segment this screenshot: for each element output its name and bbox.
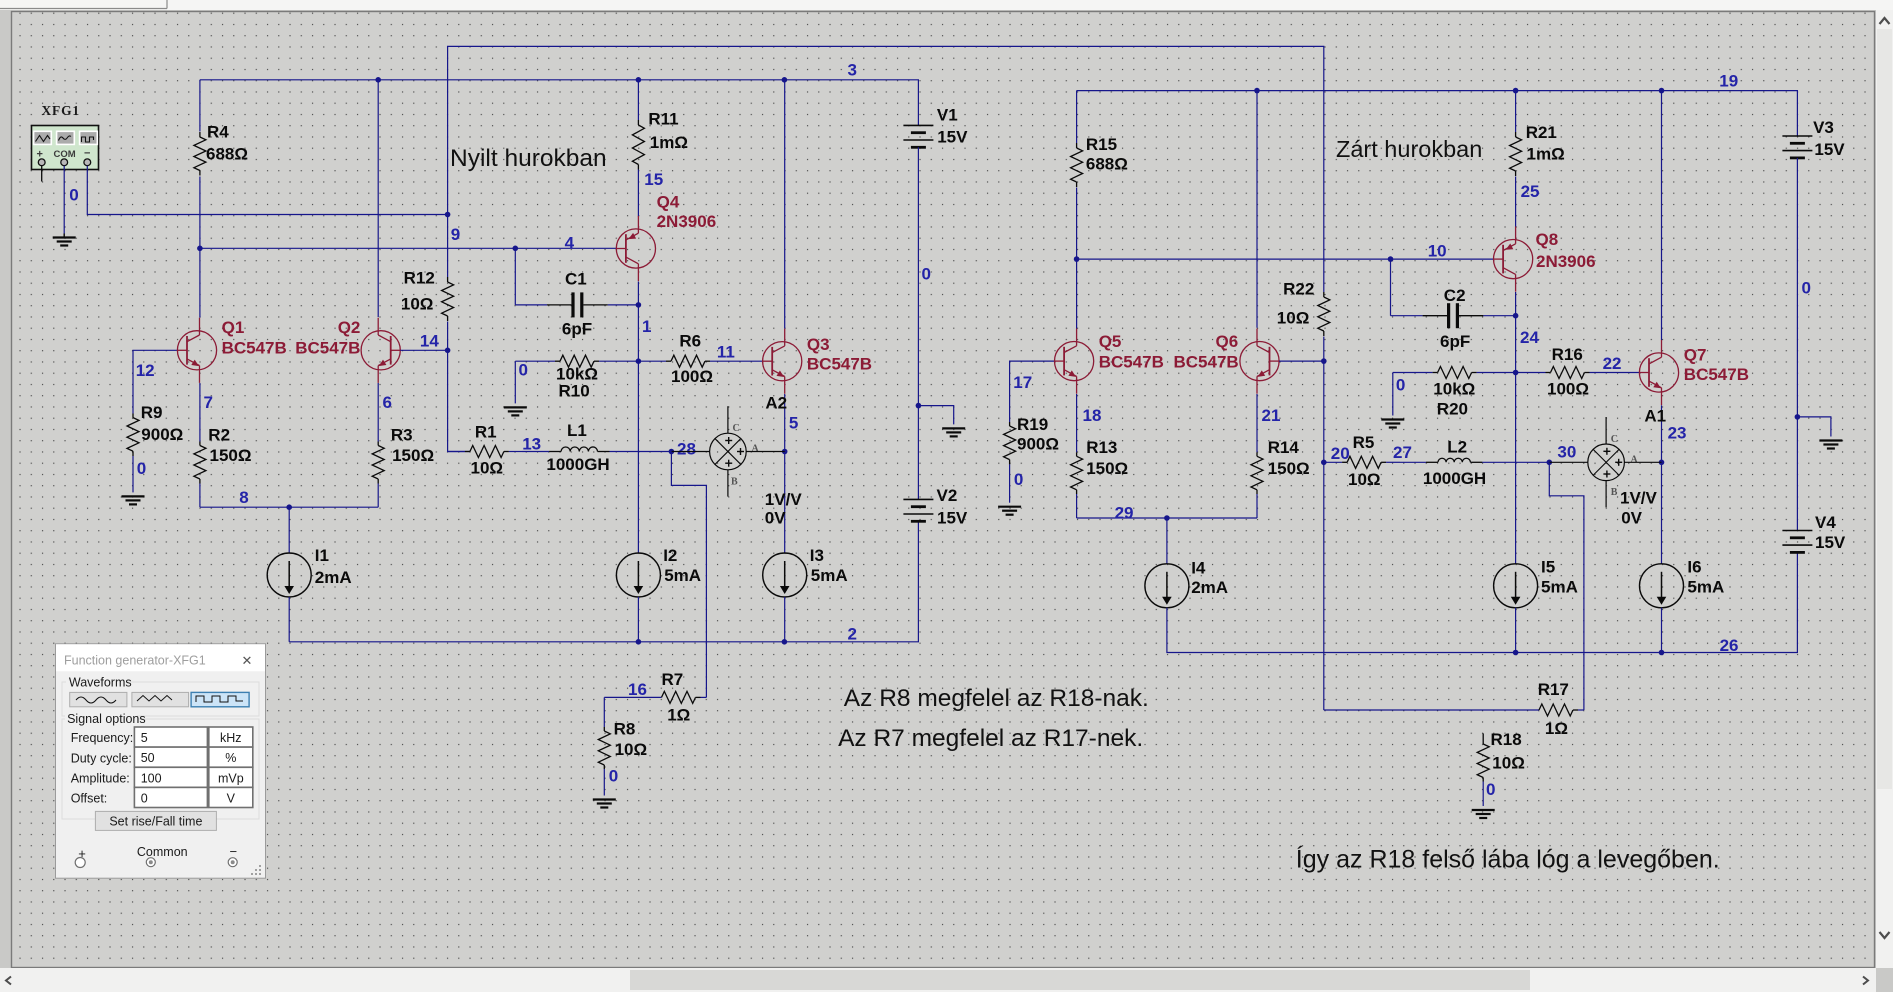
svg-text:0: 0 <box>1486 780 1495 799</box>
junction net 29 - I4 <box>1164 515 1170 521</box>
svg-text:2: 2 <box>848 625 857 644</box>
svg-text:0: 0 <box>1014 470 1023 489</box>
junction C2-Q8 <box>1513 313 1519 319</box>
wire junction to V2 <box>917 406 919 500</box>
wire net 10 row (to Q8 base) <box>1077 258 1494 260</box>
junction C1 riser <box>513 246 519 252</box>
svg-text:2N3906: 2N3906 <box>1536 252 1596 271</box>
resistor R2 <box>194 426 252 484</box>
svg-text:C: C <box>733 423 740 434</box>
svg-text:R8: R8 <box>614 720 636 739</box>
node 0 label at R18 <box>1486 780 1495 799</box>
svg-text:I3: I3 <box>810 546 824 565</box>
svg-text:10Ω: 10Ω <box>471 458 504 477</box>
svg-text:R6: R6 <box>679 332 701 351</box>
svg-text:A2: A2 <box>765 394 787 413</box>
junction R15-Q5-net10 <box>1074 256 1080 262</box>
resistor R20 <box>1393 367 1516 419</box>
junction net1-R6-R10 <box>636 358 642 364</box>
svg-text:900Ω: 900Ω <box>141 425 183 444</box>
svg-text:23: 23 <box>1668 424 1687 443</box>
function generator dialog window <box>56 644 266 878</box>
wire R20 left to ground <box>1392 373 1394 416</box>
wire A1 output to Q7 emitter <box>1624 461 1661 463</box>
dependent source A2 (1V/V) <box>710 394 803 528</box>
node 11 label <box>717 343 735 362</box>
node 29 label <box>1115 504 1134 523</box>
svg-text:B: B <box>731 476 738 487</box>
wire R2 to net 8 <box>199 484 201 508</box>
svg-text:13: 13 <box>522 434 541 453</box>
svg-text:14: 14 <box>420 331 439 350</box>
svg-text:A1: A1 <box>1644 406 1666 425</box>
svg-text:I5: I5 <box>1541 557 1555 576</box>
node 23 label <box>1668 424 1687 443</box>
node 0 label at R19 <box>1014 470 1023 489</box>
svg-text:15: 15 <box>644 170 663 189</box>
svg-text:11: 11 <box>717 343 735 362</box>
transistor Q2 (BC547B NPN, mirrored) <box>295 318 400 383</box>
resistor R12 <box>401 215 454 322</box>
svg-text:100Ω: 100Ω <box>671 367 713 386</box>
voltage source V4 15V <box>1782 513 1846 552</box>
wire net30 lead to A1 <box>1549 461 1588 463</box>
junction V3-V4-ground <box>1795 414 1801 420</box>
wire junction to Q1 collector <box>199 248 201 317</box>
resistor R4 <box>194 80 248 176</box>
svg-text:Így az R18 felső lába lóg a le: Így az R18 felső lába lóg a levegőben. <box>1296 845 1720 874</box>
svg-text:28: 28 <box>677 439 696 458</box>
svg-text:21: 21 <box>1262 406 1281 425</box>
svg-text:R3: R3 <box>391 426 413 445</box>
svg-text:R15: R15 <box>1086 135 1117 154</box>
svg-text:2mA: 2mA <box>1191 578 1228 597</box>
svg-text:4: 4 <box>565 234 575 253</box>
svg-text:Q7: Q7 <box>1684 346 1707 365</box>
svg-text:Zárt hurokban: Zárt hurokban <box>1336 136 1482 162</box>
wire XFG1 plus stub <box>41 166 43 182</box>
svg-text:V3: V3 <box>1813 118 1834 137</box>
wire feedback loop top (net 9 to R22) <box>448 46 1324 290</box>
wire junction to Q5 collector <box>1076 259 1078 328</box>
svg-text:R4: R4 <box>207 123 229 142</box>
svg-text:Q3: Q3 <box>807 335 830 354</box>
current source I1 2mA <box>267 546 351 597</box>
wire R19 to ground <box>1009 464 1011 502</box>
node 27 label <box>1393 443 1412 462</box>
node 21 label <box>1262 406 1281 425</box>
svg-text:Q8: Q8 <box>1536 230 1559 249</box>
wire I5 to net 26 <box>1515 608 1517 653</box>
voltage source V1 15V <box>903 106 968 148</box>
wire net8 to I1 <box>288 507 290 553</box>
transistor Q3 (BC547B NPN) <box>763 329 873 394</box>
wire C2 riser <box>1390 259 1392 316</box>
transistor Q4 (2N3906 PNP) <box>616 192 716 281</box>
wire junction to V4 <box>1796 417 1798 531</box>
transistor Q1 (BC547B NPN) <box>177 318 286 383</box>
title Nyilt hurokban <box>450 145 607 172</box>
node 5 label <box>789 414 798 433</box>
svg-text:BC547B: BC547B <box>1099 352 1164 371</box>
node 14 label <box>420 331 439 350</box>
svg-text:10: 10 <box>1428 242 1447 261</box>
transistor Q5 (BC547B NPN) <box>1055 329 1164 394</box>
svg-text:Az R7 megfelel az R17-nek.: Az R7 megfelel az R17-nek. <box>838 725 1143 752</box>
svg-text:R16: R16 <box>1552 345 1583 364</box>
svg-text:1mΩ: 1mΩ <box>650 133 688 152</box>
node 22 label <box>1603 354 1622 373</box>
wire I3 to net 2 <box>784 597 786 642</box>
resistor R6 <box>638 332 762 387</box>
node 0 label at R9 <box>137 459 146 478</box>
svg-text:10Ω: 10Ω <box>401 295 434 314</box>
inductor L2 1000GH <box>1400 438 1549 488</box>
svg-text:29: 29 <box>1115 504 1134 523</box>
wire R11 to Q4 collector <box>637 171 639 217</box>
wire C1 riser <box>514 248 516 305</box>
svg-text:BC547B: BC547B <box>222 339 287 358</box>
svg-text:Set rise/Fall time: Set rise/Fall time <box>109 814 202 828</box>
node 17 label <box>1013 373 1032 392</box>
svg-text:0: 0 <box>609 766 618 785</box>
wire Q5 emitter to R13 <box>1076 394 1078 452</box>
svg-text:B: B <box>1611 487 1618 498</box>
voltage source V3 15V <box>1782 118 1845 159</box>
node 10 label <box>1428 242 1447 261</box>
voltage source V2 15V <box>903 486 968 528</box>
svg-text:C2: C2 <box>1444 286 1466 305</box>
svg-text:Function generator-XFG1: Function generator-XFG1 <box>64 654 206 668</box>
wire R22 to R17 (loop right side) <box>1323 337 1325 711</box>
svg-text:1Ω: 1Ω <box>1545 719 1568 738</box>
node 0 label at XFG1 ground <box>69 186 78 205</box>
svg-text:R9: R9 <box>141 403 163 422</box>
junction rail19-Q7 <box>1659 88 1665 94</box>
node 26 label <box>1720 636 1739 655</box>
ground R19 <box>998 507 1021 515</box>
svg-text:Waveforms: Waveforms <box>69 676 132 690</box>
svg-text:25: 25 <box>1521 182 1540 201</box>
junction net23-A1 <box>1659 460 1665 466</box>
svg-text:5mA: 5mA <box>1541 577 1578 596</box>
svg-text:0: 0 <box>141 791 148 805</box>
wire Q7 emitter to net 23 <box>1661 405 1663 462</box>
resistor R18 (top leg floating) <box>1477 730 1525 782</box>
node 16 label <box>628 680 647 699</box>
inductor L1 1000GH <box>522 421 671 474</box>
node 28 label <box>677 439 696 458</box>
svg-text:Frequency:: Frequency: <box>71 731 134 745</box>
ground R18 <box>1472 810 1495 818</box>
svg-text:1V/V: 1V/V <box>765 490 803 509</box>
svg-text:R18: R18 <box>1491 730 1522 749</box>
junction V1-V2-ground <box>916 403 922 409</box>
svg-text:150Ω: 150Ω <box>392 446 434 465</box>
svg-text:R7: R7 <box>662 670 684 689</box>
junction rail19-R21 <box>1513 88 1519 94</box>
wire R18 to ground <box>1482 782 1484 807</box>
wire Q5 base net 17 <box>1010 361 1055 422</box>
wire R15 to node 10 junction <box>1076 188 1078 260</box>
node 24 label <box>1520 328 1539 347</box>
wire Q1 emitter to R2 <box>199 383 201 442</box>
svg-text:BC547B: BC547B <box>1174 352 1239 371</box>
svg-text:18: 18 <box>1083 406 1102 425</box>
svg-text:R14: R14 <box>1268 438 1300 457</box>
svg-text:5mA: 5mA <box>664 566 701 585</box>
svg-text:27: 27 <box>1393 443 1412 462</box>
svg-text:150Ω: 150Ω <box>1268 459 1310 478</box>
node 2 label <box>848 625 857 644</box>
ground R20 <box>1381 420 1404 428</box>
svg-text:10Ω: 10Ω <box>1277 309 1310 328</box>
svg-text:5mA: 5mA <box>1687 577 1724 596</box>
node 9 label <box>451 225 460 244</box>
transistor Q7 (BC547B NPN) <box>1639 340 1749 405</box>
svg-text:A: A <box>1631 454 1639 465</box>
svg-text:1Ω: 1Ω <box>667 705 690 724</box>
capacitor C1 <box>515 269 638 338</box>
ground between V1 and V2 <box>942 428 965 436</box>
svg-text:Q6: Q6 <box>1216 332 1239 351</box>
note Az R8 megfelel az R18-nak <box>844 685 1149 712</box>
svg-text:6: 6 <box>383 393 392 412</box>
svg-text:688Ω: 688Ω <box>206 145 248 164</box>
resistor R14 <box>1251 438 1310 494</box>
svg-text:XFG1: XFG1 <box>42 103 80 118</box>
title Zart hurokban <box>1336 136 1482 162</box>
junction net 14 <box>445 348 451 354</box>
node 30 label <box>1557 442 1576 461</box>
junction net2-I2 <box>636 639 642 645</box>
svg-text:100: 100 <box>141 771 162 785</box>
resistor R7 <box>662 670 707 724</box>
svg-text:150Ω: 150Ω <box>1086 459 1128 478</box>
node 15 label <box>644 170 663 189</box>
svg-text:1000GH: 1000GH <box>546 455 609 474</box>
ground R9 <box>122 496 145 504</box>
resistor R5 <box>1324 433 1400 489</box>
resistor R11 <box>632 80 688 171</box>
svg-text:2mA: 2mA <box>315 568 352 587</box>
wire XFG1 COM to ground <box>63 166 65 234</box>
svg-text:R12: R12 <box>404 269 435 288</box>
svg-text:V4: V4 <box>1815 513 1836 532</box>
svg-text:19: 19 <box>1719 72 1738 91</box>
svg-text:20: 20 <box>1331 444 1350 463</box>
junction net24-R16-R20 <box>1513 370 1519 376</box>
wire net28 lead to A2 <box>671 451 709 453</box>
junction rail-Q2 <box>375 77 381 83</box>
wire R21 to Q8 collector <box>1515 177 1517 228</box>
svg-text:kHz: kHz <box>220 731 242 745</box>
svg-text:Common: Common <box>137 845 188 859</box>
wire net29 to I4 <box>1166 518 1168 564</box>
node 13 label <box>522 434 541 453</box>
wire net 28 riser to R7 <box>671 452 706 698</box>
wire R4 to node 4 junction <box>199 177 201 249</box>
svg-text:9: 9 <box>451 225 460 244</box>
svg-text:R20: R20 <box>1437 399 1468 418</box>
junction net26-I6 <box>1659 650 1665 656</box>
junction C2 riser <box>1388 256 1394 262</box>
junction rail-Q3 <box>782 77 788 83</box>
svg-text:Duty cycle:: Duty cycle: <box>71 751 132 765</box>
wire Q7 collector to rail <box>1661 91 1663 340</box>
node 12 label <box>136 361 155 380</box>
wire R17 left lead (loop bottom) <box>1324 709 1539 711</box>
svg-text:R19: R19 <box>1017 415 1048 434</box>
junction rail19-Q6 <box>1254 88 1260 94</box>
node 18 label <box>1083 406 1102 425</box>
junction net 30 <box>1547 460 1553 466</box>
junction net 8 - I1 <box>286 504 292 510</box>
svg-text:10kΩ: 10kΩ <box>1433 380 1475 399</box>
svg-text:I1: I1 <box>315 546 329 565</box>
svg-text:1V/V: 1V/V <box>1620 489 1658 508</box>
wire R9 to ground <box>132 456 134 492</box>
svg-text:10Ω: 10Ω <box>615 740 648 759</box>
svg-text:R11: R11 <box>648 110 678 129</box>
wire I6 to net 26 <box>1661 608 1663 653</box>
wire Q6 base to loop <box>1279 360 1324 362</box>
current source I2 5mA <box>616 546 701 597</box>
node 20 label <box>1331 444 1350 463</box>
svg-text:1mΩ: 1mΩ <box>1527 144 1565 163</box>
wire Q8 emitter column to I5 <box>1515 292 1517 564</box>
svg-text:L1: L1 <box>567 421 587 440</box>
capacitor C2 <box>1391 286 1516 351</box>
svg-text:R5: R5 <box>1353 433 1375 452</box>
svg-text:22: 22 <box>1603 354 1622 373</box>
resistor R22 <box>1277 280 1330 337</box>
transistor Q6 (BC547B NPN, mirrored) <box>1174 329 1280 394</box>
svg-text:15V: 15V <box>1815 533 1846 552</box>
svg-text:15V: 15V <box>937 128 968 147</box>
resistor R10 <box>515 355 638 401</box>
resistor R13 <box>1071 438 1129 494</box>
svg-text:100Ω: 100Ω <box>1547 380 1589 399</box>
node 1 label <box>642 317 651 336</box>
wire Q3 emitter to net 5 <box>784 394 786 452</box>
svg-text:Offset:: Offset: <box>71 792 108 806</box>
note Az R7 megfelel az R17-nek <box>838 725 1143 752</box>
svg-text:0: 0 <box>922 265 931 284</box>
svg-text:Az R8 megfelel az R18-nak.: Az R8 megfelel az R18-nak. <box>844 685 1149 712</box>
wire supply rail net 3 (R4 to V1) <box>200 80 919 126</box>
dependent source A1 (1V/V) <box>1588 406 1666 527</box>
junction R4-Q1-net4 <box>197 246 203 252</box>
junction net 28 <box>669 449 675 455</box>
svg-text:0: 0 <box>1396 375 1405 394</box>
svg-text:10Ω: 10Ω <box>1348 470 1381 489</box>
wire supply rail net 19 (R15 to V3) <box>1077 91 1798 136</box>
node 0 label at V1 <box>922 265 931 284</box>
svg-text:6pF: 6pF <box>1440 332 1470 351</box>
svg-text:I2: I2 <box>663 546 677 565</box>
svg-text:R10: R10 <box>559 382 590 401</box>
wire R10 left to ground <box>514 361 516 403</box>
svg-text:C1: C1 <box>565 269 587 288</box>
svg-text:R2: R2 <box>208 426 230 445</box>
svg-text:V2: V2 <box>937 486 958 505</box>
wire ground branch right <box>1797 417 1831 437</box>
svg-text:3: 3 <box>848 61 857 80</box>
wire A2 output to Q3 emitter <box>746 451 785 453</box>
wire net5 to I3 <box>784 452 786 554</box>
svg-text:0: 0 <box>137 459 146 478</box>
resistor R17 <box>1538 680 1584 738</box>
wire Q6 collector to rail <box>1256 91 1258 328</box>
wire R14 to net 29 <box>1256 494 1258 518</box>
svg-text:5mA: 5mA <box>811 566 848 585</box>
junction net 20 <box>1321 460 1327 466</box>
svg-text:R13: R13 <box>1086 438 1117 457</box>
svg-text:10Ω: 10Ω <box>1492 754 1525 773</box>
svg-text:C: C <box>1611 434 1618 445</box>
wire Q1 base net 12 <box>133 350 177 413</box>
svg-text:BC547B: BC547B <box>807 355 872 374</box>
svg-text:Q2: Q2 <box>338 318 361 337</box>
wire I4 to net 26 row (to V4) <box>1167 552 1798 652</box>
current source I5 5mA <box>1494 557 1578 608</box>
resistor R1 <box>448 422 522 477</box>
wire Q2 base to net 14 <box>400 349 447 351</box>
wire Q2 collector to rail <box>377 80 379 317</box>
wire XFG1 minus output to net 9 junction <box>87 166 447 215</box>
svg-text:6pF: 6pF <box>562 320 592 339</box>
svg-text:Signal options: Signal options <box>67 712 146 726</box>
svg-text:Q4: Q4 <box>657 192 680 211</box>
wire net23 to I6 <box>1661 462 1663 564</box>
node 4 label <box>565 234 575 253</box>
svg-text:15V: 15V <box>937 508 968 527</box>
svg-text:R1: R1 <box>475 422 497 441</box>
svg-text:L2: L2 <box>1447 438 1467 457</box>
svg-text:7: 7 <box>204 393 213 412</box>
svg-text:%: % <box>225 751 236 765</box>
resistor R8 <box>598 720 647 769</box>
node 25 label <box>1521 182 1540 201</box>
wire net 8 row <box>200 506 378 508</box>
svg-text:R17: R17 <box>1538 680 1569 699</box>
svg-text:1: 1 <box>642 317 651 336</box>
wire net 29 row <box>1077 517 1257 519</box>
junction rail-R11 <box>636 77 642 83</box>
svg-text:2N3906: 2N3906 <box>657 212 717 231</box>
wire Q2 emitter to R3 <box>377 383 379 442</box>
svg-text:15V: 15V <box>1814 140 1845 159</box>
wire ground branch <box>918 406 953 425</box>
wire R12 to R1 <box>448 322 470 452</box>
svg-text:I4: I4 <box>1191 559 1206 578</box>
ground R8 <box>593 800 616 808</box>
junction net2-I3 <box>782 639 788 645</box>
node 19 label <box>1719 72 1738 91</box>
wire V1 to ground junction <box>917 147 919 405</box>
svg-text:0V: 0V <box>1621 508 1642 527</box>
svg-text:−: − <box>84 148 90 160</box>
resistor R16 <box>1516 345 1640 399</box>
note Igy az R18 felso laba log a levegoben <box>1296 845 1720 874</box>
wire I2 to net 2 <box>637 597 639 642</box>
wire R8 to ground <box>603 769 605 796</box>
svg-text:24: 24 <box>1520 328 1539 347</box>
wire R13 to net 29 <box>1076 494 1078 518</box>
transistor Q8 (2N3906 PNP) <box>1494 227 1596 292</box>
node 0 label at R20 ground <box>1396 375 1405 394</box>
